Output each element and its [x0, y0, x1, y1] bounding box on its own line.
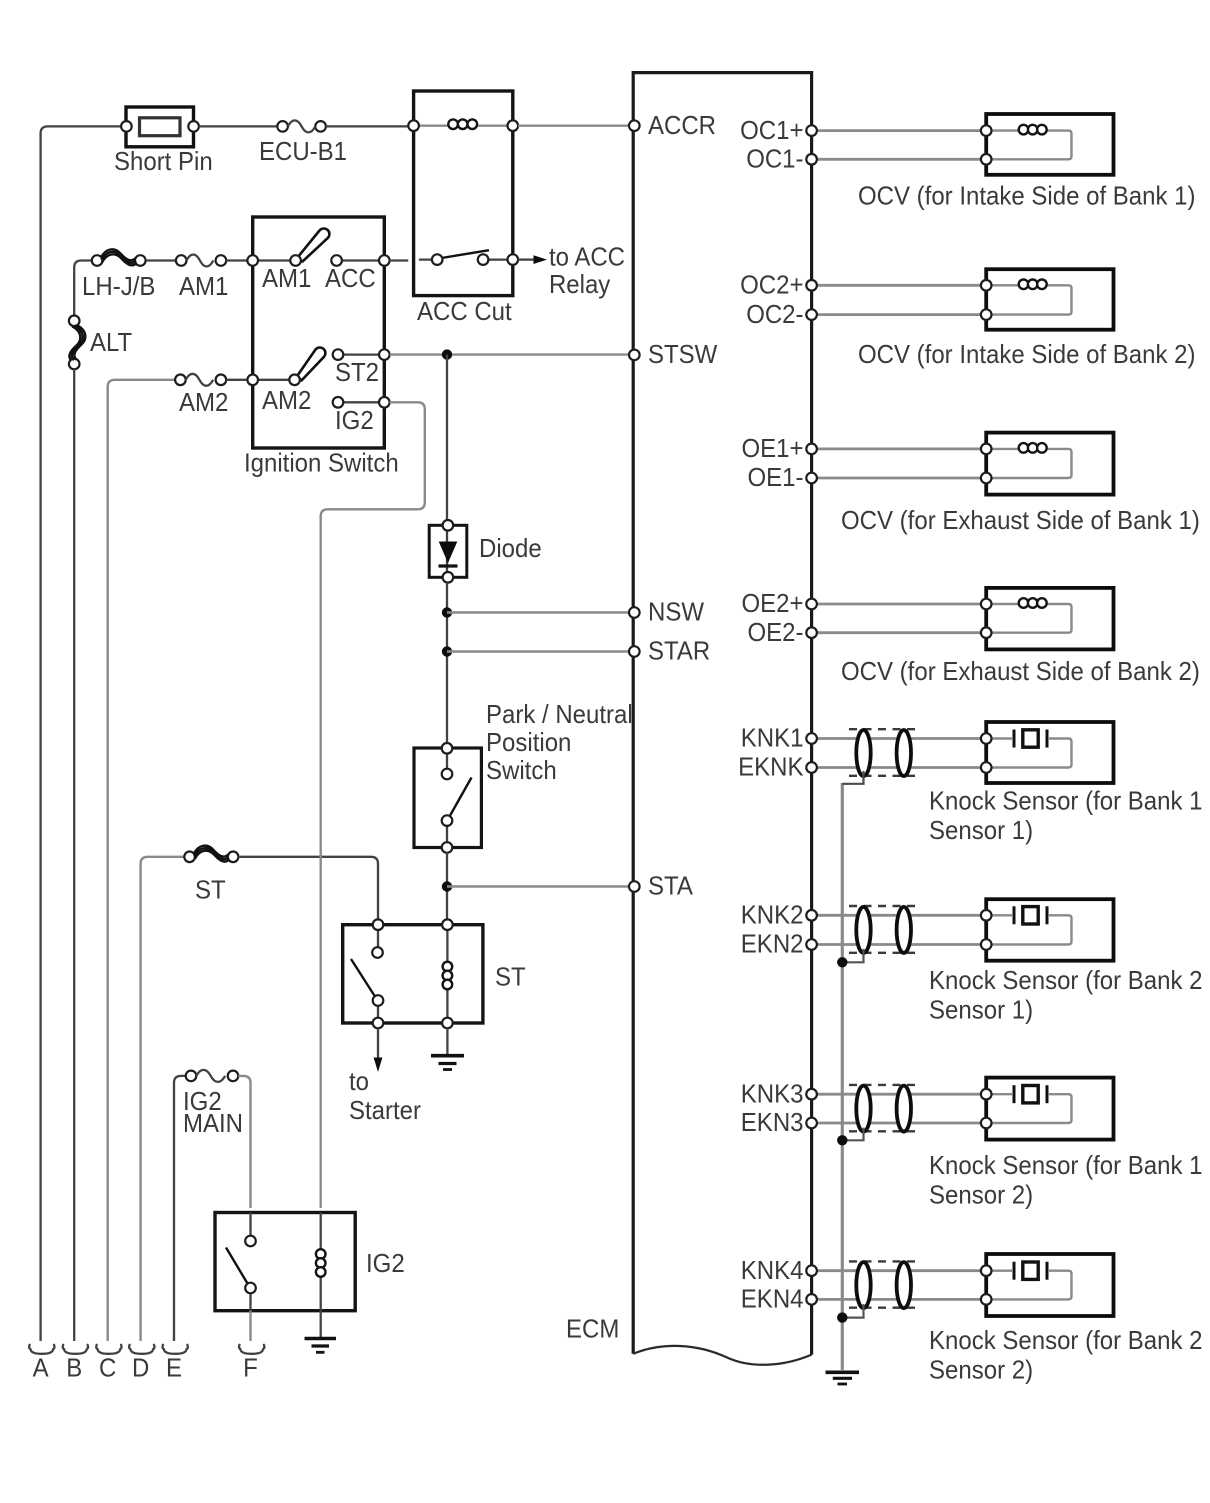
wire EKNK to knock sensor: [817, 766, 981, 769]
terminal KNK4: [741, 1255, 817, 1285]
svg-text:Knock Sensor (for Bank 2: Knock Sensor (for Bank 2: [929, 965, 1203, 995]
arrow to Starter: [374, 1028, 383, 1072]
terminal OC2-: [746, 299, 817, 329]
shield drain wire (KNK1): [842, 771, 863, 784]
shielded cable sheath dashes (KNK3/EKN3): [849, 1085, 917, 1131]
svg-text:ACC Cut: ACC Cut: [417, 296, 512, 326]
connector hook A: [29, 1345, 54, 1354]
wire Short Pin to fuse ECU-B1: [199, 125, 277, 127]
terminal EKN3: [741, 1107, 817, 1137]
wire EKN4 to knock sensor: [817, 1298, 981, 1301]
junction shield drain KNK4: [837, 1312, 847, 1322]
svg-text:KNK3: KNK3: [741, 1078, 804, 1108]
wire AM1 to ignition switch: [226, 259, 247, 261]
wire LH-J/B to fuse AM1: [146, 259, 176, 261]
relay ACC Cut: [408, 91, 518, 296]
svg-text:AM2: AM2: [179, 387, 228, 417]
wire KNK2 to knock sensor: [817, 914, 981, 917]
wire NSW to ECM: [447, 611, 629, 613]
wire KNK4 to knock sensor: [817, 1269, 981, 1272]
shield drain wire (KNK2): [842, 949, 863, 962]
wire node C column (AM2 feed): [108, 380, 175, 1341]
svg-text:ALT: ALT: [90, 327, 132, 357]
svg-text:OC2-: OC2-: [746, 299, 803, 329]
svg-text:STA: STA: [648, 871, 694, 901]
svg-text:OC1-: OC1-: [746, 144, 803, 174]
svg-text:OCV (for Intake Side of Bank 1: OCV (for Intake Side of Bank 1): [858, 181, 1196, 211]
knock sensor: Knock Sensor (for Bank 2 Sensor 1): [981, 899, 1114, 961]
svg-text:OE2+: OE2+: [742, 588, 804, 618]
svg-text:NSW: NSW: [648, 597, 704, 627]
svg-text:OE2-: OE2-: [748, 617, 804, 647]
fusible link ALT: [69, 316, 85, 370]
junction STAR: [442, 646, 452, 656]
shield grommets (KNK2/EKN2): [856, 907, 911, 953]
fusible link ST: [184, 846, 238, 862]
svg-text:Knock Sensor (for Bank 1: Knock Sensor (for Bank 1: [929, 1150, 1203, 1180]
svg-text:EKNK: EKNK: [738, 752, 804, 782]
terminal EKNK: [738, 752, 817, 782]
ground ST relay: [431, 1028, 464, 1069]
wire ST2 to ECM STSW: [390, 353, 629, 355]
shielded cable sheath dashes (KNK4/EKN4): [849, 1261, 917, 1307]
svg-text:B: B: [66, 1353, 82, 1383]
wire KNK3 to knock sensor: [817, 1093, 981, 1096]
terminal OC2+: [740, 270, 817, 300]
fuse AM1: [176, 255, 226, 267]
svg-text:OC2+: OC2+: [740, 270, 803, 300]
svg-text:D: D: [132, 1353, 149, 1383]
svg-text:OCV (for Exhaust Side of Bank: OCV (for Exhaust Side of Bank 1): [841, 505, 1200, 535]
svg-text:LH-J/B: LH-J/B: [82, 271, 155, 301]
wire STA to ECM: [447, 885, 629, 887]
junction ST2/diode node: [442, 349, 452, 359]
svg-text:Ignition Switch: Ignition Switch: [244, 448, 399, 478]
svg-text:STSW: STSW: [648, 339, 718, 369]
svg-text:ECM: ECM: [566, 1314, 619, 1344]
wire KNK1 to knock sensor: [817, 737, 981, 740]
wire junction to diode: [446, 355, 448, 520]
wire EKN3 to knock sensor: [817, 1122, 981, 1125]
wire STAR to ECM: [447, 650, 629, 652]
diode: [429, 520, 467, 583]
wire battery feed node A column: [41, 126, 121, 1341]
wire node B lower column: [73, 369, 75, 1341]
wire OC1+ to OCV: [817, 129, 981, 132]
wire node D column (ST feed): [141, 857, 185, 1341]
svg-text:Relay: Relay: [549, 269, 610, 299]
svg-text:Sensor 2): Sensor 2): [929, 1180, 1033, 1210]
wire node B upper (LH-J/B feed): [74, 261, 92, 316]
svg-text:AM1: AM1: [262, 263, 311, 293]
wire node E column (IG2 MAIN feed): [174, 1076, 186, 1341]
wire AM2 to ignition switch: [226, 379, 247, 381]
svg-text:Position: Position: [486, 727, 571, 757]
svg-text:Sensor 1): Sensor 1): [929, 815, 1033, 845]
svg-text:ACCR: ACCR: [648, 110, 716, 140]
svg-text:to: to: [349, 1066, 369, 1096]
terminal OE1+: [742, 433, 817, 463]
connector hook C: [96, 1345, 121, 1354]
svg-text:ST2: ST2: [335, 357, 379, 387]
svg-text:ACC: ACC: [325, 263, 376, 293]
svg-text:ECU-B1: ECU-B1: [259, 136, 347, 166]
relay IG2: [215, 1213, 355, 1311]
ground knock sensor shield: [826, 1372, 860, 1384]
fuse IG2 MAIN: [186, 1070, 239, 1082]
park / neutral position switch: [414, 743, 481, 853]
OCV solenoid: OCV (for Exhaust Side of Bank 2): [981, 588, 1114, 650]
wire OC2+ to OCV: [817, 284, 981, 287]
wire ECU-B1 to ACC Cut relay: [326, 125, 408, 127]
connector hook B: [63, 1345, 88, 1354]
wire ACC Cut coil to ECM ACCR: [518, 124, 629, 126]
junction NSW: [442, 607, 452, 617]
svg-text:Park / Neutral: Park / Neutral: [486, 699, 633, 729]
wire ST fuse to ST relay: [238, 857, 378, 920]
terminal KNK1: [741, 723, 817, 753]
OCV solenoid: OCV (for Intake Side of Bank 2): [981, 269, 1114, 330]
svg-text:EKN2: EKN2: [741, 929, 804, 959]
OCV solenoid: OCV (for Intake Side of Bank 1): [981, 114, 1114, 175]
fuse AM2: [175, 374, 226, 386]
shielded cable sheath dashes (KNK1/EKNK): [849, 729, 917, 776]
wire IG2 relay to connector F: [249, 1311, 251, 1341]
svg-text:KNK1: KNK1: [741, 723, 804, 753]
ignition switch: [247, 217, 389, 448]
junction shield drain KNK2: [837, 957, 847, 967]
wire park/neutral to ST relay: [446, 853, 448, 920]
svg-text:MAIN: MAIN: [183, 1108, 243, 1138]
svg-text:OE1-: OE1-: [748, 462, 804, 492]
shield grommets (KNK1/EKNK): [856, 730, 911, 776]
terminal KNK2: [741, 900, 817, 930]
svg-text:Knock Sensor (for Bank 1: Knock Sensor (for Bank 1: [929, 786, 1203, 816]
wire OC2- to OCV: [817, 313, 981, 316]
shield grommets (KNK3/EKN3): [856, 1086, 911, 1132]
wire EKN2 to knock sensor: [817, 943, 981, 946]
connector hook F: [239, 1345, 264, 1354]
svg-text:IG2: IG2: [366, 1248, 405, 1278]
svg-text:STAR: STAR: [648, 636, 710, 666]
terminal OC1-: [746, 144, 817, 174]
shield drain wire (KNK4): [842, 1304, 863, 1318]
arrow to ACC Relay: [518, 255, 547, 264]
svg-text:to ACC: to ACC: [549, 242, 625, 272]
svg-text:Short Pin: Short Pin: [114, 146, 213, 176]
svg-text:Diode: Diode: [479, 533, 542, 563]
fuse ECU-B1: [277, 120, 326, 132]
knock sensor: Knock Sensor (for Bank 1 Sensor 1): [981, 722, 1114, 783]
wire diode to park/neutral switch: [446, 583, 448, 743]
knock sensor: Knock Sensor (for Bank 1 Sensor 2): [981, 1078, 1114, 1140]
OCV solenoid: OCV (for Exhaust Side of Bank 1): [981, 433, 1114, 495]
terminal STAR: [629, 636, 710, 666]
terminal ACCR: [629, 110, 716, 140]
junction STA: [442, 881, 452, 891]
connector hook E: [163, 1345, 188, 1354]
svg-text:Starter: Starter: [349, 1095, 421, 1125]
svg-text:F: F: [243, 1353, 258, 1383]
svg-text:EKN4: EKN4: [741, 1284, 804, 1314]
terminal STSW: [629, 339, 718, 369]
terminal STA: [629, 871, 694, 901]
svg-text:Switch: Switch: [486, 755, 557, 785]
svg-text:C: C: [99, 1353, 116, 1383]
svg-text:E: E: [166, 1353, 182, 1383]
ECM box: [633, 73, 811, 1365]
svg-text:EKN3: EKN3: [741, 1107, 804, 1137]
wire OE2+ to OCV: [817, 603, 981, 606]
wire ignition ACC to ACC Cut: [390, 259, 409, 261]
svg-text:ST: ST: [195, 875, 226, 905]
terminal NSW: [629, 597, 704, 627]
svg-text:Sensor 2): Sensor 2): [929, 1355, 1033, 1385]
svg-text:AM2: AM2: [262, 385, 311, 415]
shield drain wire (KNK3): [842, 1128, 863, 1141]
terminal EKN4: [741, 1284, 817, 1314]
wire ignition IG2 to IG2 relay coil: [321, 402, 425, 1208]
knock sensor: Knock Sensor (for Bank 2 Sensor 2): [981, 1254, 1114, 1316]
terminal KNK3: [741, 1078, 817, 1108]
terminal EKN2: [741, 929, 817, 959]
shield grommets (KNK4/EKN4): [856, 1262, 911, 1308]
svg-text:KNK2: KNK2: [741, 900, 804, 930]
short pin: [121, 107, 199, 147]
svg-text:AM1: AM1: [179, 271, 228, 301]
shielded cable sheath dashes (KNK2/EKN2): [849, 906, 917, 953]
terminal OC1+: [740, 115, 817, 145]
junction shield drain KNK3: [837, 1135, 847, 1145]
terminal OE1-: [748, 462, 817, 492]
wire OE1+ to OCV: [817, 447, 981, 450]
wire OC1- to OCV: [817, 158, 981, 161]
relay ST: [343, 919, 483, 1028]
svg-text:OCV (for Intake Side of Bank 2: OCV (for Intake Side of Bank 2): [858, 339, 1196, 369]
svg-text:IG2: IG2: [335, 405, 374, 435]
terminal OE2+: [742, 588, 817, 618]
svg-text:KNK4: KNK4: [741, 1255, 804, 1285]
wire OE2- to OCV: [817, 631, 981, 634]
wire OE1- to OCV: [817, 477, 981, 480]
svg-text:Sensor 1): Sensor 1): [929, 995, 1033, 1025]
shield drain bus wire: [841, 783, 844, 1370]
svg-text:OC1+: OC1+: [740, 115, 803, 145]
connector hook D: [129, 1345, 154, 1354]
svg-text:ST: ST: [495, 962, 526, 992]
fusible link LH-J/B: [92, 249, 146, 265]
svg-text:Knock Sensor (for Bank 2: Knock Sensor (for Bank 2: [929, 1325, 1203, 1355]
terminal OE2-: [748, 617, 817, 647]
wire IG2 MAIN to IG2 relay: [238, 1076, 250, 1208]
ground IG2 relay: [305, 1311, 337, 1353]
svg-text:A: A: [33, 1353, 50, 1383]
svg-text:OE1+: OE1+: [742, 433, 804, 463]
svg-text:OCV (for Exhaust Side of Bank: OCV (for Exhaust Side of Bank 2): [841, 656, 1200, 686]
